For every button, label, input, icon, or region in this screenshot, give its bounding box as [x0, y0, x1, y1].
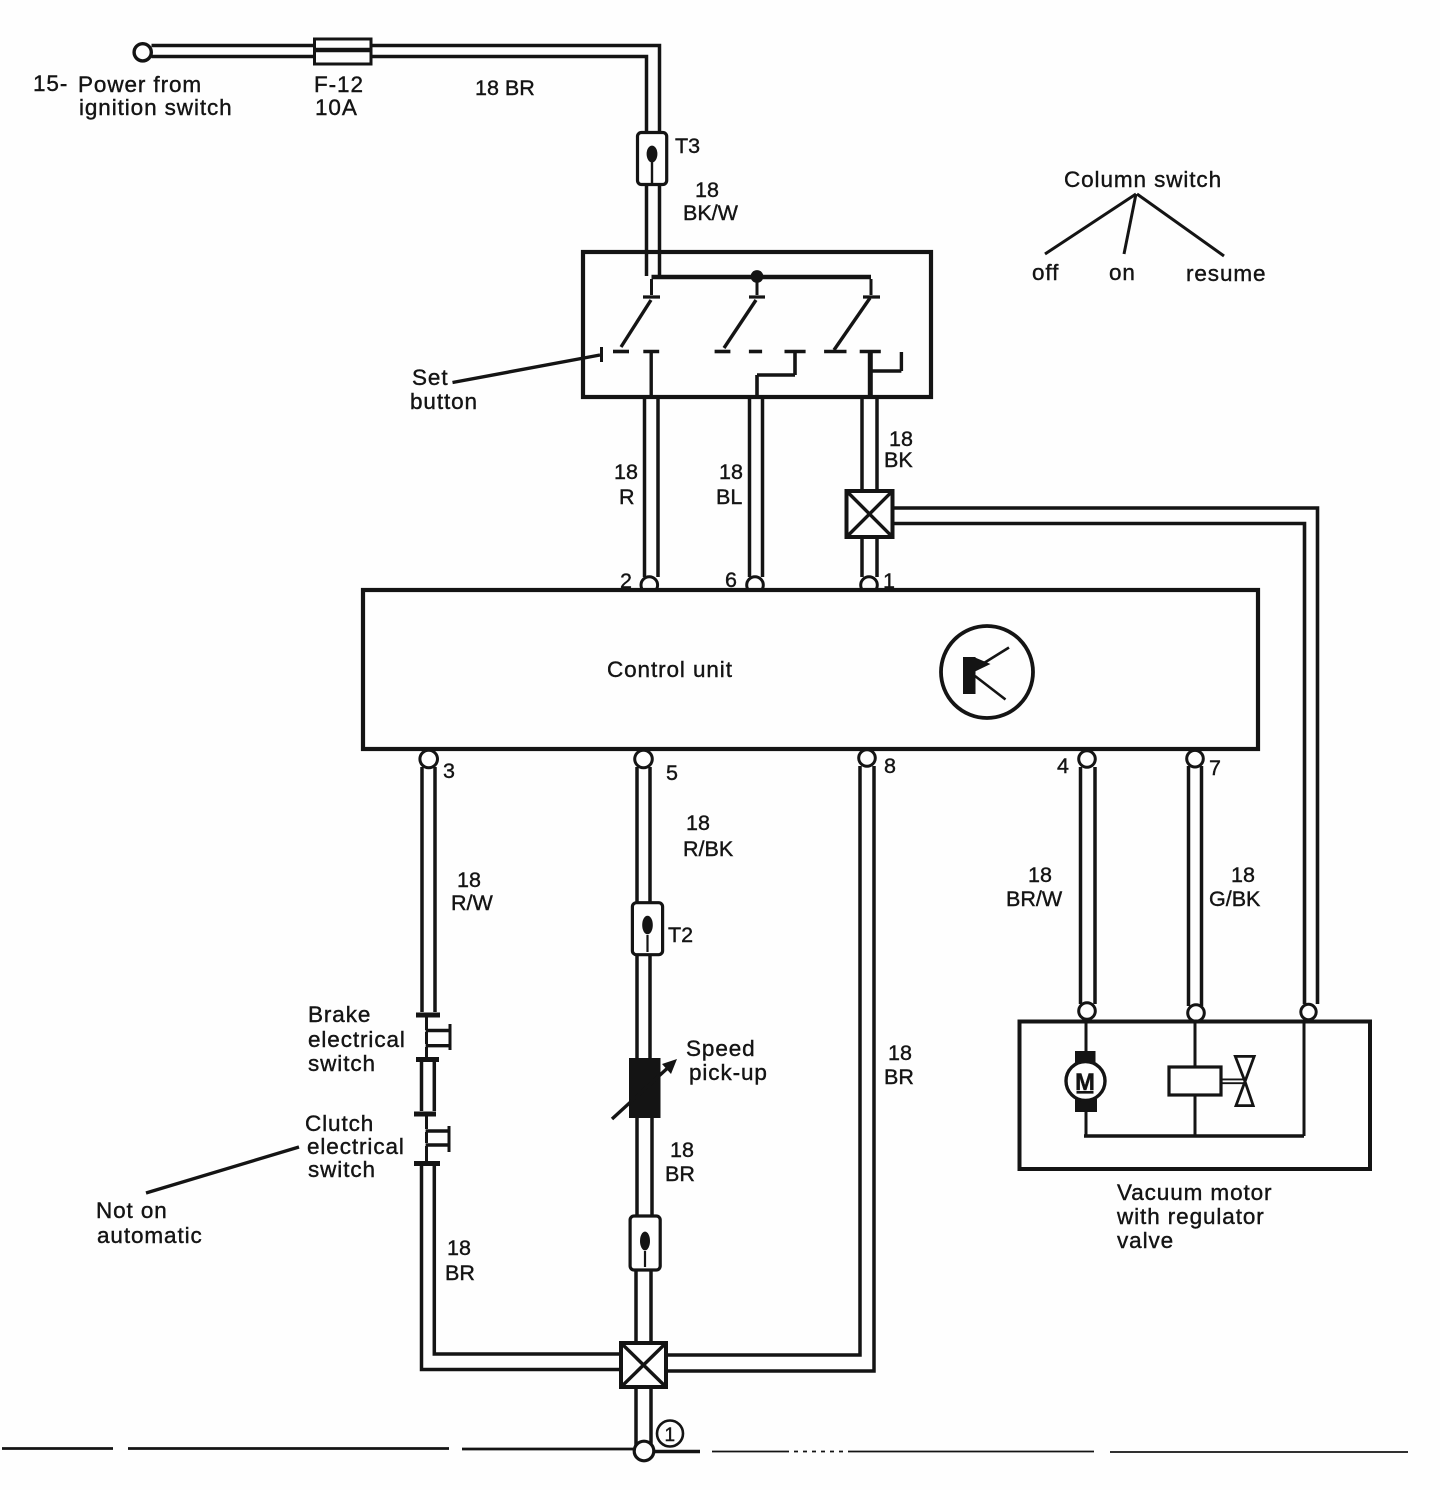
svg-text:Column switch: Column switch — [1064, 167, 1222, 192]
svg-text:18: 18 — [614, 460, 638, 484]
control unit pin 1 — [861, 577, 878, 594]
svg-text:Control unit: Control unit — [607, 657, 733, 682]
wire: switch S3 down to connector X1 (double line) — [862, 397, 877, 491]
wire: connector T4 to connector X2 (double line) — [636, 1270, 651, 1343]
svg-text:BR: BR — [445, 1261, 475, 1285]
wire: T3 down to switch box (double line) — [647, 185, 660, 277]
svg-text:Vacuum motor: Vacuum motor — [1117, 1180, 1272, 1205]
switch S1 (set button contact) — [613, 279, 660, 397]
speed pick-up pointer arrow — [612, 1059, 677, 1119]
control unit pin 4 — [1079, 751, 1096, 768]
wire: box top to regulator valve — [1194, 1021, 1197, 1067]
set button pointer line and tick — [453, 347, 602, 383]
svg-text:BR: BR — [884, 1065, 914, 1089]
svg-text:18: 18 — [719, 460, 743, 484]
svg-text:with regulator: with regulator — [1116, 1204, 1265, 1229]
label Brake electrical switch — [308, 1002, 406, 1076]
switch S2 (on contact) — [715, 279, 806, 397]
svg-text:18: 18 — [888, 1041, 912, 1065]
label Not on automatic — [96, 1198, 203, 1248]
svg-text:Power from: Power from — [78, 72, 202, 97]
wire: pin 4 down to vacuum unit (double line) — [1081, 767, 1096, 1004]
svg-text:BL: BL — [716, 485, 742, 509]
svg-text:18: 18 — [670, 1138, 694, 1162]
speedometer symbol inside control unit — [941, 626, 1033, 718]
svg-text:BK/W: BK/W — [683, 201, 739, 225]
wire: brake switch to clutch switch (double line) — [422, 1062, 435, 1111]
connector T4 (unlabeled inline connector) — [630, 1216, 660, 1270]
label F-12 10A — [314, 72, 364, 120]
svg-text:18: 18 — [686, 811, 710, 835]
label 18 BR (middle branch) — [665, 1138, 695, 1186]
switch S3 (resume contact) — [824, 279, 901, 397]
pointer line: Not on automatic to clutch switch — [146, 1147, 299, 1193]
label Speed pick-up — [686, 1036, 768, 1085]
wire: pin 7 down to vacuum unit (double line) — [1189, 766, 1202, 1006]
clutch electrical switch S5 — [414, 1114, 449, 1164]
svg-text:Not on: Not on — [96, 1198, 168, 1223]
svg-text:18: 18 — [1028, 863, 1052, 887]
wire: clutch switch down and right to connector X2 (double line) — [422, 1166, 622, 1370]
column switch / set button box — [583, 252, 931, 397]
svg-text:BR: BR — [665, 1162, 695, 1186]
label Vacuum motor with regulator valve — [1116, 1180, 1272, 1253]
junction dot on bus — [751, 270, 764, 283]
svg-text:off: off — [1032, 260, 1059, 285]
svg-text:valve: valve — [1117, 1228, 1174, 1253]
wire: bottom rail inside vacuum box — [1084, 1134, 1304, 1138]
svg-text:15-: 15- — [33, 71, 68, 96]
wire: pin 5 down to T2 (double line) — [637, 767, 650, 902]
fuse F-12 — [315, 39, 372, 64]
svg-text:switch: switch — [308, 1157, 376, 1182]
control unit pin 8 — [859, 750, 876, 767]
label 18 R/BK — [683, 811, 734, 861]
wire: X1 right across and down to vacuum unit (double line) — [893, 508, 1318, 1004]
svg-text:5: 5 — [666, 761, 678, 785]
label 18 BL — [716, 460, 743, 509]
label 18 BK — [884, 427, 913, 472]
svg-text:4: 4 — [1057, 754, 1069, 778]
butterfly valve symbol — [1235, 1056, 1254, 1105]
svg-text:resume: resume — [1186, 261, 1266, 286]
svg-text:18: 18 — [695, 178, 719, 202]
label 15- Power from ignition switch — [33, 71, 233, 120]
svg-text:electrical: electrical — [307, 1134, 405, 1159]
label 18 BR/W — [1006, 863, 1063, 911]
connector X2 (crossed box, bottom) — [621, 1343, 666, 1387]
control unit pin 7 — [1187, 750, 1204, 767]
vacuum motor unit box — [1020, 1022, 1371, 1170]
label 18 R — [614, 460, 638, 509]
svg-text:10A: 10A — [315, 95, 358, 120]
wire: X1 down to control unit pin 1 (double line) — [862, 537, 877, 577]
wire: power feed to fuse F-12 (double line) — [152, 46, 315, 57]
label 18 BK/W — [683, 178, 739, 225]
svg-text:R/W: R/W — [451, 891, 494, 915]
label 18 R/W — [451, 868, 494, 915]
svg-text:R: R — [619, 485, 635, 509]
control unit U1 box — [363, 590, 1258, 749]
wire: pin 3 down to brake switch (double line) — [422, 767, 435, 1012]
svg-text:Clutch: Clutch — [305, 1111, 374, 1136]
ground terminal pin circle — [634, 1441, 654, 1461]
svg-text:ignition switch: ignition switch — [79, 95, 233, 120]
wire: box top to motor M — [1085, 1021, 1088, 1053]
svg-text:18: 18 — [457, 868, 481, 892]
svg-text:Brake: Brake — [308, 1002, 371, 1027]
bus wire inside switch box — [652, 275, 872, 279]
wire: fuse to corner then down to T3 (double line) — [371, 46, 660, 133]
connector T2 — [632, 903, 662, 955]
svg-text:18: 18 — [1231, 863, 1255, 887]
speed pick-up (filled block) — [629, 1058, 661, 1118]
wire: switch S2 to control unit pin 6 (double line) — [750, 397, 763, 577]
svg-text:button: button — [410, 389, 478, 414]
vacuum unit terminal circle (pin 4 wire) — [1079, 1003, 1096, 1020]
label 18 BR (left branch) — [445, 1236, 475, 1285]
svg-text:electrical: electrical — [308, 1027, 406, 1052]
svg-text:BR/W: BR/W — [1006, 887, 1063, 911]
label Clutch electrical switch — [305, 1111, 405, 1182]
svg-text:Set: Set — [412, 365, 448, 390]
control unit pin 5 — [635, 750, 653, 768]
connector X1 (crossed box, top right) — [847, 491, 893, 537]
control unit pin 6 — [747, 577, 764, 594]
regulator valve solenoid box — [1169, 1067, 1221, 1095]
wire: speed pick-up to connector T4 (double line) — [637, 1118, 652, 1215]
wire: switch S1 to control unit pin 2 (double line) — [645, 397, 659, 577]
control unit pin 2 — [641, 577, 658, 594]
brake electrical switch S4 — [416, 1015, 451, 1060]
label Set button — [410, 365, 478, 414]
motor M with brushes — [1066, 1051, 1105, 1112]
svg-text:18: 18 — [447, 1236, 471, 1260]
wire: motor to bottom rail inside box — [1085, 1112, 1088, 1136]
label 18 BR (pin 8 branch) — [884, 1041, 914, 1089]
valve shaft — [1221, 1079, 1245, 1083]
wire: right feed down inside box — [1303, 1021, 1306, 1136]
control unit pin 3 — [420, 750, 438, 768]
svg-text:7: 7 — [1209, 756, 1221, 780]
wire: pin 8 down to connector X2 (double line) — [666, 766, 874, 1371]
wire: connector X2 down to ground terminal (double line) — [636, 1387, 651, 1448]
svg-text:R/BK: R/BK — [683, 837, 734, 861]
svg-text:switch: switch — [308, 1051, 376, 1076]
svg-text:pick-up: pick-up — [689, 1060, 768, 1085]
svg-text:T3: T3 — [675, 134, 700, 158]
svg-text:8: 8 — [884, 754, 896, 778]
column switch annotation lines — [1045, 194, 1224, 256]
svg-text:Speed: Speed — [686, 1036, 756, 1061]
svg-text:automatic: automatic — [97, 1223, 203, 1248]
svg-text:T2: T2 — [668, 923, 693, 947]
vacuum unit terminal circle (pin 7 wire) — [1188, 1005, 1205, 1022]
wire: T2 to speed pick-up (double line) — [637, 955, 650, 1058]
label 18 G/BK — [1209, 863, 1261, 911]
wire: valve to bottom rail — [1194, 1095, 1197, 1136]
svg-text:on: on — [1109, 260, 1136, 285]
svg-text:1: 1 — [665, 1425, 676, 1446]
vacuum unit terminal circle (right feed wire) — [1301, 1004, 1316, 1019]
connector T3 — [638, 133, 667, 185]
node 15: power feed terminal circle — [134, 44, 151, 61]
ground node symbol (1) — [657, 1421, 683, 1447]
svg-text:G/BK: G/BK — [1209, 887, 1261, 911]
svg-text:3: 3 — [443, 759, 455, 783]
ground rail line (bottom) — [2, 1449, 1408, 1453]
svg-text:BK: BK — [884, 448, 913, 472]
svg-text:F-12: F-12 — [314, 72, 364, 97]
svg-text:18 BR: 18 BR — [475, 76, 535, 100]
